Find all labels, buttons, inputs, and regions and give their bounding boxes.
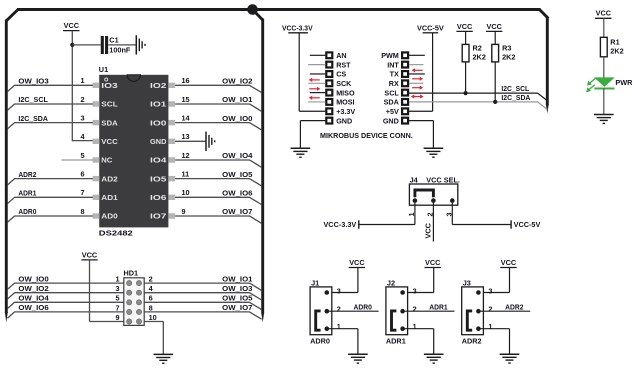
- svg-text:SDA: SDA: [101, 119, 117, 127]
- jumper J1 pins: [325, 290, 330, 331]
- node VCC (top-left): [63, 21, 80, 31]
- svg-text:TX: TX: [390, 70, 399, 79]
- resistor R1: [600, 37, 623, 57]
- wire net bus top-left chamfer: [6, 10, 18, 22]
- svg-text:3: 3: [337, 287, 341, 296]
- svg-text:IO0: IO0: [150, 119, 166, 127]
- svg-text:IO7: IO7: [150, 213, 166, 221]
- svg-text:RST: RST: [336, 60, 351, 69]
- svg-text:10: 10: [182, 188, 190, 197]
- svg-text:VCC-5V: VCC-5V: [417, 23, 444, 32]
- arrow MISO out: [309, 87, 320, 91]
- svg-text:VCC: VCC: [486, 22, 502, 31]
- svg-text:VCC-3.3V: VCC-3.3V: [282, 23, 313, 32]
- wire MOSI stub: [308, 101, 325, 103]
- svg-text:7: 7: [80, 188, 84, 197]
- svg-text:OW_IO2: OW_IO2: [222, 77, 252, 86]
- wire OW_IO5 from U1 pin 11: [175, 179, 261, 186]
- wire GND pin to ground (left conn): [300, 120, 325, 122]
- svg-text:+3.3V: +3.3V: [336, 107, 355, 116]
- svg-text:AD0: AD0: [101, 213, 117, 221]
- wire I2C_SCL to U1 pin 2: [7, 104, 92, 110]
- svg-text:OW_IO5: OW_IO5: [222, 170, 252, 179]
- wire SCL net: [409, 92, 538, 94]
- svg-text:PWR: PWR: [615, 78, 633, 87]
- svg-text:ADR2: ADR2: [18, 170, 36, 179]
- svg-text:HD1: HD1: [124, 269, 139, 278]
- wire INT stub: [409, 64, 423, 66]
- wire J2 pin 1 to ground: [403, 328, 434, 330]
- wire OW_IO1 from U1 pin 15: [175, 104, 261, 111]
- node VCC (J2): [425, 258, 442, 268]
- svg-text:2: 2: [149, 275, 153, 284]
- svg-text:3: 3: [488, 287, 492, 296]
- svg-text:3: 3: [413, 287, 417, 296]
- wire VCC to R2: [465, 31, 467, 44]
- svg-text:I2C_SDA: I2C_SDA: [18, 114, 48, 123]
- svg-text:6: 6: [149, 294, 153, 303]
- mikroBUS left pin labels: [336, 51, 355, 125]
- svg-text:OW_IO6: OW_IO6: [222, 189, 252, 198]
- wire J1 pin 1 to ground: [327, 328, 358, 330]
- connector mikroBUS right (P2): [401, 51, 409, 124]
- wire OW_IO2 from U1 pin 16: [175, 85, 261, 92]
- arrow RX out: [412, 86, 423, 90]
- svg-text:IO5: IO5: [150, 175, 166, 183]
- svg-text:ADR1: ADR1: [386, 336, 406, 345]
- jumper J3 cap (1-2): [467, 311, 472, 330]
- wire OW_IO2 to HD1 pin 3: [7, 293, 123, 299]
- svg-text:IO4: IO4: [150, 157, 166, 165]
- svg-text:SDA: SDA: [384, 98, 399, 107]
- wire OW_IO7 from U1 pin 9: [175, 216, 261, 223]
- svg-text:AD1: AD1: [101, 194, 117, 202]
- wire bus diagonal from dot: [255, 12, 263, 21]
- svg-text:100nF: 100nF: [109, 46, 131, 55]
- svg-text:2K2: 2K2: [473, 53, 486, 62]
- svg-text:VCC SEL.: VCC SEL.: [426, 175, 460, 184]
- jumper J2 pins: [400, 290, 405, 331]
- svg-text:VCC: VCC: [596, 9, 612, 18]
- wire SDA net: [409, 101, 538, 103]
- svg-text:ADR1: ADR1: [18, 189, 36, 198]
- wire OW_IO6 from U1 pin 10: [175, 197, 261, 204]
- svg-text:VCC-5V: VCC-5V: [514, 220, 541, 229]
- svg-text:8: 8: [149, 303, 153, 312]
- wire CS stub: [310, 73, 326, 75]
- wire J4 pin2 VCC: [432, 203, 434, 242]
- svg-text:5: 5: [80, 151, 84, 160]
- capacitor C1: [102, 35, 131, 54]
- arrow MOSI in: [309, 96, 320, 100]
- svg-text:ADR0: ADR0: [18, 207, 36, 216]
- junction VCC/C1: [70, 43, 74, 47]
- wire OW_IO1 from HD1 pin 2: [144, 283, 261, 290]
- svg-text:+5V: +5V: [386, 107, 399, 116]
- junction SCL/R2: [464, 91, 468, 95]
- svg-text:I2C_SDA: I2C_SDA: [501, 93, 531, 102]
- wire OW_IO0 to HD1 pin 1: [7, 283, 123, 289]
- resistor R3: [492, 44, 516, 62]
- svg-text:J1: J1: [311, 278, 319, 287]
- node VCC (HD1): [81, 250, 98, 260]
- svg-text:OW_IO7: OW_IO7: [222, 207, 252, 216]
- wire VCC to J3 pin 3: [509, 268, 511, 293]
- node VCC (J1): [349, 258, 366, 268]
- svg-text:2: 2: [413, 305, 417, 314]
- wire I2C_SDA to U1 pin 3: [7, 123, 92, 129]
- svg-text:J4: J4: [410, 175, 419, 184]
- wire RX stub: [409, 82, 423, 84]
- arrow INT in: [412, 68, 423, 72]
- svg-text:ADR2: ADR2: [462, 336, 482, 345]
- svg-text:SCK: SCK: [336, 79, 352, 88]
- svg-text:R3: R3: [502, 44, 511, 53]
- svg-text:OW_IO5: OW_IO5: [222, 294, 252, 303]
- svg-text:2K2: 2K2: [610, 47, 623, 56]
- wire LED to ground: [603, 89, 605, 115]
- wire OW_IO5 from HD1 pin 6: [144, 302, 261, 309]
- junction SDA/R3: [493, 100, 497, 104]
- svg-text:VCC: VCC: [82, 250, 98, 259]
- wire C1 to ground: [108, 44, 136, 46]
- wire VCC to HD1 pin 9: [89, 260, 91, 322]
- jumper J1 body: [310, 287, 332, 335]
- svg-text:AN: AN: [336, 51, 346, 60]
- svg-text:9: 9: [115, 313, 119, 322]
- wire J3 pin 1 to ground: [478, 328, 509, 330]
- wire PWM stub: [409, 54, 425, 56]
- wire MISO stub: [310, 92, 326, 94]
- wire OW_IO6 to HD1 pin 7: [7, 312, 123, 318]
- svg-text:VCC: VCC: [457, 22, 473, 31]
- wire SCK stub: [308, 82, 325, 84]
- jumper J2 body: [386, 287, 408, 335]
- svg-text:NC: NC: [101, 157, 112, 165]
- svg-text:OW_IO7: OW_IO7: [222, 303, 252, 312]
- svg-text:J3: J3: [463, 278, 471, 287]
- svg-text:SCL: SCL: [101, 101, 118, 109]
- wire net bus top edge: [17, 8, 541, 11]
- wire GND pin to ground (right conn): [409, 120, 433, 122]
- U1 pin name labels: [101, 82, 166, 221]
- svg-text:R2: R2: [473, 44, 482, 53]
- svg-text:3: 3: [115, 284, 119, 293]
- svg-text:OW_IO2: OW_IO2: [18, 284, 48, 293]
- svg-text:OW_IO3: OW_IO3: [18, 77, 48, 86]
- svg-text:U1: U1: [99, 65, 108, 74]
- wire ADR1 from J2 pin 2: [403, 310, 455, 312]
- wire R2 to SCL: [465, 62, 467, 93]
- J2 pin numbers: [413, 287, 417, 331]
- wire HD1 pin 10 to ground: [144, 321, 163, 323]
- wire ADR0 to U1 pin 8: [7, 216, 92, 222]
- svg-text:2K2: 2K2: [502, 53, 515, 62]
- wire U1 pin 13 GND: [175, 140, 206, 142]
- svg-text:ADR2: ADR2: [505, 302, 523, 311]
- jumper J4 pins: [413, 198, 455, 203]
- wire ADR0 from J1 pin 2: [327, 310, 379, 312]
- arrow SCK in: [309, 78, 320, 82]
- svg-text:OW_IO1: OW_IO1: [222, 274, 252, 283]
- wire VCC to C1: [72, 44, 100, 46]
- svg-text:IO1: IO1: [150, 101, 166, 109]
- svg-text:DS2482: DS2482: [99, 229, 133, 238]
- LED emission arrows: [586, 78, 596, 92]
- J4 pin numbers: [407, 212, 453, 216]
- svg-text:I2C_SCL: I2C_SCL: [501, 84, 529, 93]
- connector mikroBUS left (P1): [325, 51, 333, 124]
- wire OW_IO4 from U1 pin 12: [175, 160, 261, 167]
- svg-text:VCC: VCC: [425, 258, 441, 267]
- svg-text:12: 12: [182, 151, 190, 160]
- node VCC (R2): [456, 22, 473, 32]
- node VCC (J3): [500, 258, 517, 268]
- svg-text:PWM: PWM: [381, 51, 399, 60]
- svg-text:OW_IO3: OW_IO3: [222, 284, 252, 293]
- wire TX stub: [409, 73, 425, 75]
- wire VCC-5V to +5V pin: [432, 33, 434, 111]
- svg-text:15: 15: [182, 95, 190, 104]
- wire VCC to R3: [494, 31, 496, 44]
- svg-text:SCL: SCL: [384, 88, 399, 97]
- svg-text:VCC-3.3V: VCC-3.3V: [323, 220, 356, 229]
- node VCC (PWR LED): [595, 9, 612, 19]
- ground (J3): [500, 354, 520, 363]
- LED PWR (green): [594, 77, 615, 88]
- svg-text:AD2: AD2: [101, 175, 117, 183]
- wire net bus left edge: [5, 20, 8, 323]
- svg-text:R1: R1: [610, 37, 619, 46]
- U1 pin stubs: [93, 83, 176, 219]
- wire ADR2 to U1 pin 6: [7, 179, 92, 185]
- wire OW_IO0 from U1 pin 14: [175, 123, 261, 130]
- HD1 pin numbers: [115, 275, 156, 322]
- svg-text:GND: GND: [336, 116, 352, 125]
- node VCC-5V (mikroBUS): [417, 23, 444, 32]
- node VCC-3.3V (mikroBUS): [282, 23, 313, 32]
- svg-text:2: 2: [80, 95, 84, 104]
- jumper J4 cap (1-2): [415, 190, 434, 197]
- arrow TX out: [412, 77, 423, 81]
- svg-text:INT: INT: [387, 60, 399, 69]
- svg-text:16: 16: [182, 76, 190, 85]
- wire J4 pin3 to VCC-5V: [451, 203, 453, 225]
- wire R3 to SDA: [494, 62, 496, 102]
- wire VCC down to U1 pin 4: [71, 31, 73, 142]
- wire net bus middle vertical: [261, 19, 264, 323]
- svg-text:1: 1: [337, 322, 341, 331]
- wire VCC to J2 pin 3: [433, 268, 435, 293]
- wire net bus right edge: [546, 17, 549, 114]
- wire OW_IO7 from HD1 pin 8: [144, 312, 261, 319]
- wire U1 pin 5 NC stub: [62, 159, 93, 161]
- svg-text:1: 1: [115, 275, 119, 284]
- svg-text:OW_IO4: OW_IO4: [222, 151, 253, 160]
- resistor R2: [462, 44, 486, 62]
- svg-text:MOSI: MOSI: [336, 98, 354, 107]
- J3 pin numbers: [488, 287, 492, 331]
- mikroBUS right pin labels: [381, 51, 399, 125]
- connector HD1 body: [124, 278, 144, 326]
- ground (J1): [348, 354, 368, 363]
- svg-text:1: 1: [413, 322, 417, 331]
- wire VCC-3.3V to +3.3V pin: [298, 33, 300, 111]
- svg-text:OW_IO0: OW_IO0: [222, 114, 252, 123]
- wire VCC to R1: [603, 18, 605, 37]
- ground (U1 pin 13, right-pointing): [206, 132, 215, 151]
- svg-text:3: 3: [80, 113, 84, 122]
- svg-text:IO6: IO6: [150, 194, 166, 202]
- wire net bus top-right chamfer: [540, 10, 549, 19]
- svg-text:7: 7: [115, 303, 119, 312]
- node VCC (R3): [486, 22, 503, 32]
- svg-text:8: 8: [80, 207, 84, 216]
- arrow SCL/SDA bidirectional: [411, 94, 424, 98]
- svg-text:IO3: IO3: [101, 82, 117, 90]
- jumper J3 pins: [476, 290, 481, 331]
- svg-text:ADR1: ADR1: [429, 302, 447, 311]
- node VCC (J4 pin2, rotated): [424, 222, 433, 238]
- wire OW_IO4 to HD1 pin 5: [7, 302, 123, 308]
- wire ADR2 from J3 pin 2: [478, 310, 530, 312]
- svg-text:VCC: VCC: [424, 222, 433, 238]
- svg-text:6: 6: [80, 169, 84, 178]
- svg-text:ADR0: ADR0: [354, 302, 372, 311]
- svg-text:13: 13: [182, 132, 190, 141]
- svg-text:2: 2: [488, 305, 492, 314]
- svg-text:2: 2: [337, 305, 341, 314]
- wire RST stub: [308, 64, 325, 66]
- wire VCC to J1 pin 3: [357, 268, 359, 293]
- svg-text:J2: J2: [387, 278, 395, 287]
- svg-text:OW_IO4: OW_IO4: [18, 294, 49, 303]
- ground (HD1 pin 10): [154, 354, 174, 363]
- terminal VCC-5V (J4): [511, 220, 540, 229]
- ground (PWR LED): [594, 115, 614, 124]
- svg-text:OW_IO0: OW_IO0: [18, 274, 48, 283]
- ground (mikroBUS right): [424, 148, 444, 157]
- svg-text:ADR0: ADR0: [310, 336, 330, 345]
- jumper J4 body: [409, 184, 457, 205]
- jumper J2 cap (1-2): [392, 311, 397, 330]
- svg-text:VCC: VCC: [101, 138, 117, 146]
- ground (J2): [424, 354, 444, 363]
- svg-text:5: 5: [115, 294, 119, 303]
- svg-text:1: 1: [80, 76, 84, 85]
- ground (C1, right-pointing): [136, 35, 145, 54]
- wire AN stub: [310, 54, 326, 56]
- J1 pin numbers: [337, 287, 341, 331]
- svg-text:I2C_SCL: I2C_SCL: [18, 95, 48, 104]
- svg-text:VCC: VCC: [501, 258, 517, 267]
- svg-text:RX: RX: [389, 79, 399, 88]
- svg-text:IO2: IO2: [150, 82, 166, 90]
- svg-text:MIKROBUS DEVICE CONN.: MIKROBUS DEVICE CONN.: [320, 131, 413, 140]
- svg-text:1: 1: [488, 322, 492, 331]
- svg-text:MISO: MISO: [336, 88, 355, 97]
- svg-text:11: 11: [182, 169, 190, 178]
- svg-text:10: 10: [149, 313, 157, 322]
- svg-text:VCC: VCC: [349, 258, 365, 267]
- wire OW_IO3 from HD1 pin 4: [144, 293, 261, 300]
- ground (mikroBUS left): [291, 148, 311, 157]
- wire R1 to LED: [603, 57, 605, 78]
- svg-text:VCC: VCC: [64, 21, 80, 30]
- svg-text:9: 9: [182, 207, 186, 216]
- op-amp U1 body (DS2482 IC): [99, 75, 168, 228]
- jumper J1 cap (1-2): [316, 311, 321, 330]
- svg-text:OW_IO6: OW_IO6: [18, 303, 48, 312]
- svg-text:OW_IO1: OW_IO1: [222, 95, 252, 104]
- terminal VCC-3.3V (J4): [323, 220, 358, 229]
- junction bus dot: [247, 4, 258, 15]
- jumper J3 body: [462, 287, 484, 335]
- svg-text:CS: CS: [336, 70, 346, 79]
- wire J4 pin1 to VCC-3.3V: [414, 203, 416, 225]
- svg-text:C1: C1: [109, 35, 118, 44]
- wire OW_IO3 to U1 pin 1: [7, 85, 92, 91]
- wire ADR1 to U1 pin 7: [7, 197, 92, 203]
- svg-text:14: 14: [182, 113, 191, 122]
- svg-text:GND: GND: [383, 116, 399, 125]
- svg-text:GND: GND: [150, 138, 166, 146]
